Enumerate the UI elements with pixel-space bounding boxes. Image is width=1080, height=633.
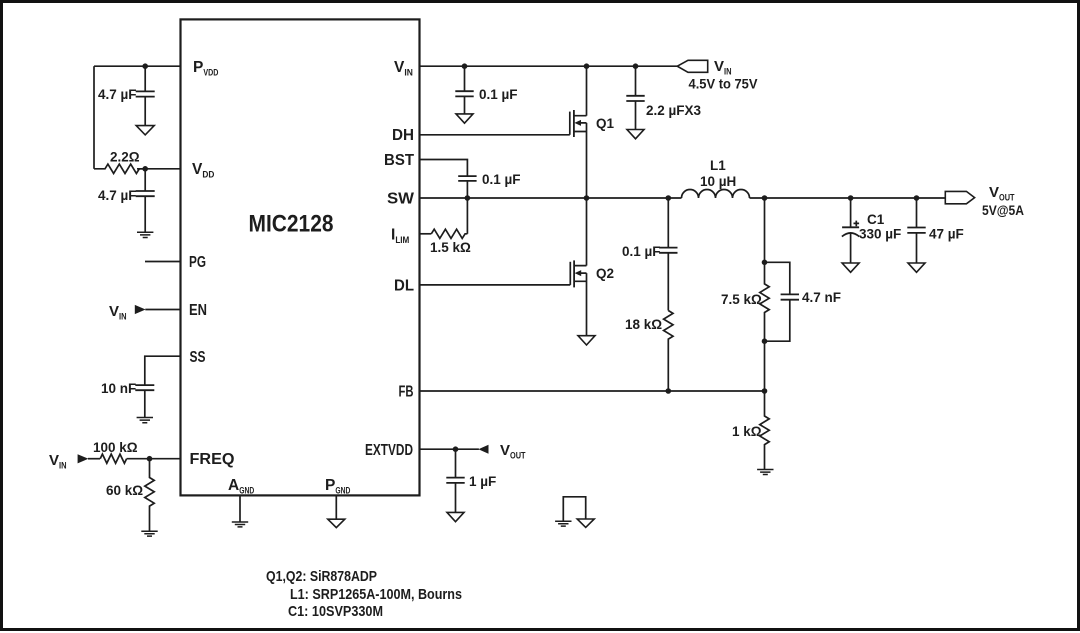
wire output rail (750, 197, 946, 199)
svg-text:0.1 µF: 0.1 µF (482, 172, 521, 187)
op-amp U1 MIC2128 IC body (181, 19, 420, 495)
capacitor 4.7nF parallel branch wires (765, 262, 790, 341)
node junction output at divider (762, 195, 768, 201)
wire VIN rail from pin to flag (420, 65, 678, 67)
node junction on PVDD wire (142, 63, 148, 69)
value label 1.5k (430, 240, 471, 255)
ground tie wire AGND-PGND (563, 497, 585, 521)
VIN signal arrow into EN (135, 305, 146, 314)
capacitor 0.1uF (BST) lower lead (466, 181, 468, 198)
svg-text:DH: DH (392, 127, 414, 144)
ground (earth bars) below VDD cap (137, 232, 153, 237)
capacitor 4.7uF (PVDD) leads (144, 66, 146, 125)
svg-text:SS: SS (190, 349, 206, 366)
node junction SW at BST cap (465, 195, 471, 201)
pin PGND label (325, 477, 350, 497)
value label 1uF (469, 474, 496, 489)
net label 5V@5A (982, 203, 1024, 218)
svg-text:4.7 µF: 4.7 µF (98, 188, 137, 203)
node junction FB at divider (762, 388, 768, 394)
capacitor 4.7uF (VDD) leads (144, 169, 146, 233)
wire left rail vertical (93, 66, 95, 169)
wire SS pin to capacitor (145, 356, 181, 385)
value label 4.7uF (PVDD) (98, 87, 137, 102)
VOUT signal arrow into EXTVDD (478, 445, 488, 454)
net VOUT flag label (989, 184, 1015, 204)
pin AGND label (228, 477, 254, 497)
transistor Q2 label (596, 266, 614, 281)
svg-text:100 kΩ: 100 kΩ (93, 440, 138, 455)
VOUT flag symbol (945, 191, 974, 203)
capacitor 10nF lead to ground (144, 390, 146, 417)
transistor Q2 (570, 198, 586, 336)
wire ILIM pin to resistor (420, 233, 432, 235)
ground (open triangle) below Q2 source (578, 336, 595, 345)
capacitor 0.1uF (VIN) leads (464, 66, 466, 114)
svg-text:C1: C1 (867, 212, 885, 227)
polarity plus sign C1 (854, 221, 860, 227)
capacitor 0.1uF (ripple) plates (659, 248, 677, 253)
svg-text:EN: EN (189, 302, 207, 319)
annotation Q1,Q2 part number (266, 568, 377, 585)
svg-text:5V@5A: 5V@5A (982, 203, 1024, 218)
wire FB rail (420, 390, 765, 392)
capacitor 2.2uFX3 leads (635, 66, 637, 129)
capacitor 2.2uFX3 plates (626, 96, 644, 101)
ground (earth bars) below 1k (757, 470, 773, 475)
capacitor C1 330uF leads (850, 198, 852, 263)
ground (open triangle) PGND (328, 519, 345, 527)
svg-text:4.5V to 75V: 4.5V to 75V (689, 77, 758, 92)
svg-text:BST: BST (384, 152, 415, 169)
value label 7.5k (721, 292, 762, 307)
svg-text:10 nF: 10 nF (101, 381, 136, 396)
node junction FREQ divider (147, 456, 153, 462)
ground (open triangle) below 2.2uF (627, 130, 644, 139)
svg-text:10 µH: 10 µH (700, 174, 736, 189)
resistor 7.5k vertical (760, 262, 769, 341)
node VIN (FREQ) label (49, 452, 67, 472)
capacitor C1 330uF top plate (842, 226, 859, 228)
value label 100k (93, 440, 138, 455)
pin ILIM label (391, 227, 409, 247)
node junction bottom of 7.5k (762, 338, 768, 344)
svg-text:Q1: Q1 (596, 116, 615, 131)
wire BST pin to bootstrap cap (420, 160, 468, 177)
capacitor 10nF plates (135, 385, 154, 390)
inductor L1 ref label (710, 158, 726, 173)
wire VDD pin segment (137, 168, 181, 170)
wire FREQ resistor to pin (127, 458, 181, 460)
ground (open triangle) below 1uF (447, 512, 464, 521)
svg-text:4.7 nF: 4.7 nF (802, 290, 841, 305)
pin PG label (189, 254, 206, 271)
wire divider top branch (764, 198, 766, 262)
value label 4.7uF (VDD) (98, 188, 137, 203)
value label 60k (106, 483, 143, 498)
VIN signal arrow into FREQ (78, 454, 89, 463)
svg-text:PG: PG (189, 254, 206, 271)
svg-text:60 kΩ: 60 kΩ (106, 483, 143, 498)
svg-text:Q2: Q2 (596, 266, 614, 281)
value label 18k (625, 317, 662, 332)
svg-text:EXTVDD: EXTVDD (365, 442, 413, 459)
resistor 1k vertical (760, 391, 769, 470)
capacitor 4.7nF plates (781, 294, 799, 299)
capacitor 0.1uF (VIN) plates (455, 91, 473, 96)
ground (open triangle) below VIN 0.1uF (456, 114, 473, 123)
inductor L1 (682, 190, 750, 199)
capacitor 4.7uF (VDD) plates (136, 191, 155, 196)
resistor 1.5k (431, 229, 467, 238)
capacitor C1 ref label (867, 212, 885, 227)
node junction SW at Q1/Q2 (584, 195, 590, 201)
annotation L1 part number (290, 586, 462, 603)
value label 1k (732, 424, 762, 439)
resistor 100k (100, 454, 126, 463)
capacitor 47uF plates (907, 228, 925, 233)
svg-text:DL: DL (394, 278, 414, 295)
svg-text:1 µF: 1 µF (469, 474, 496, 489)
value label 0.1uF (VIN) (479, 87, 518, 102)
wire EXTVDD pin (420, 448, 479, 450)
node junction on VDD wire (142, 166, 148, 172)
resistor 18k vertical (664, 311, 673, 392)
svg-text:18 kΩ: 18 kΩ (625, 317, 662, 332)
pin SS label (190, 349, 206, 366)
ground (earth bars) below 60k (141, 531, 157, 536)
net VOUT (EXTVDD) label (500, 442, 526, 462)
value label 0.1uF (ripple) (622, 244, 661, 259)
pin VDD label (192, 161, 214, 181)
value label 0.1uF (BST) (482, 172, 521, 187)
pin VIN label (394, 59, 413, 79)
wire 1.5k to SW junction (466, 198, 468, 234)
wire divider to FB rail (764, 341, 766, 391)
VIN flag symbol (677, 60, 707, 72)
ground (open triangle) below PVDD cap (136, 126, 154, 135)
resistor 2.2 ohm (94, 164, 147, 173)
value label 10uH (700, 174, 736, 189)
capacitor C1 330uF curved plate (842, 233, 859, 237)
value label 10nF (101, 381, 136, 396)
wire FREQ from arrow to resistor (88, 458, 100, 460)
resistor 60k vertical (145, 459, 154, 532)
svg-text:L1: L1 (710, 158, 726, 173)
node junction SW at ripple branch (666, 195, 672, 201)
pin BST label (384, 152, 415, 169)
svg-text:0.1 µF: 0.1 µF (622, 244, 661, 259)
wire EN pin (145, 309, 180, 311)
pin SW label (387, 191, 414, 208)
node junction EXTVDD (453, 446, 459, 452)
node junction top of 7.5k (762, 260, 768, 266)
capacitor 0.1uF (BST) plates (458, 176, 476, 181)
svg-text:MIC2128: MIC2128 (249, 211, 334, 238)
svg-text:FREQ: FREQ (190, 451, 235, 468)
value label 47uF (929, 227, 964, 242)
svg-text:L1: SRP1265A-100M, Bourns: L1: SRP1265A-100M, Bourns (290, 586, 462, 603)
pin PVDD label (193, 59, 218, 79)
pin DH label (392, 127, 414, 144)
capacitor 1uF leads (455, 449, 457, 512)
pin EXTVDD label (365, 442, 413, 459)
svg-text:4.7 µF: 4.7 µF (98, 87, 137, 102)
value label 330uF (859, 227, 901, 242)
ground (earth bars) AGND (232, 522, 248, 527)
svg-text:FB: FB (399, 384, 414, 401)
pin FREQ label (190, 451, 235, 468)
svg-text:7.5 kΩ: 7.5 kΩ (721, 292, 762, 307)
svg-text:1.5 kΩ: 1.5 kΩ (430, 240, 471, 255)
capacitor 0.1uF (ripple) leads (667, 198, 669, 311)
pin EN label (189, 302, 207, 319)
svg-text:0.1 µF: 0.1 µF (479, 87, 518, 102)
net label 4.5V to 75V (689, 77, 758, 92)
transistor Q1 label (596, 116, 615, 131)
node junction output at 47uF (914, 195, 920, 201)
svg-text:2.2 µFX3: 2.2 µFX3 (646, 103, 702, 118)
node junction FB at 18k (666, 388, 672, 394)
svg-text:47 µF: 47 µF (929, 227, 964, 242)
wire SW rail (420, 197, 682, 199)
ground (earth bars) tie left (555, 521, 571, 526)
ground (open triangle) tie right (577, 519, 594, 527)
capacitor 4.7uF (PVDD) plates (136, 91, 155, 96)
pin DL label (394, 278, 414, 295)
node junction VIN rail at Q1 drain (584, 63, 590, 69)
svg-text:Q1,Q2: SiR878ADP: Q1,Q2: SiR878ADP (266, 568, 377, 585)
node junction VIN rail at 2.2uF (633, 63, 639, 69)
svg-text:330 µF: 330 µF (859, 227, 901, 242)
wire DH pin to Q1 gate (420, 134, 570, 136)
transistor Q1 (570, 66, 587, 198)
svg-text:C1: 10SVP330M: C1: 10SVP330M (288, 603, 383, 620)
ground (open triangle) below C1 (842, 263, 859, 272)
capacitor 1uF plates (446, 478, 464, 483)
node junction VIN rail at 0.1uF (462, 63, 468, 69)
value label 2.2uFX3 (646, 103, 702, 118)
svg-text:SW: SW (387, 191, 414, 208)
ground (earth bars) below 10nF (137, 418, 153, 423)
svg-text:2.2Ω: 2.2Ω (110, 150, 140, 165)
value label 2.2 ohm (110, 150, 140, 165)
wire PVDD pin to left rail (94, 65, 181, 67)
wire DL pin to Q2 gate (420, 284, 571, 286)
wire PGND stub (335, 496, 337, 520)
node junction output at C1 (848, 195, 854, 201)
wire AGND stub (239, 496, 241, 523)
ground (open triangle) below 47uF (908, 263, 925, 272)
pin FB label (399, 384, 414, 401)
node VIN (EN) label (109, 303, 127, 323)
annotation C1 part number (288, 603, 383, 620)
net VIN flag label (714, 58, 732, 78)
capacitor 47uF leads (916, 198, 918, 263)
svg-text:1 kΩ: 1 kΩ (732, 424, 762, 439)
value label 4.7nF (802, 290, 841, 305)
wire PG stub (145, 261, 181, 263)
